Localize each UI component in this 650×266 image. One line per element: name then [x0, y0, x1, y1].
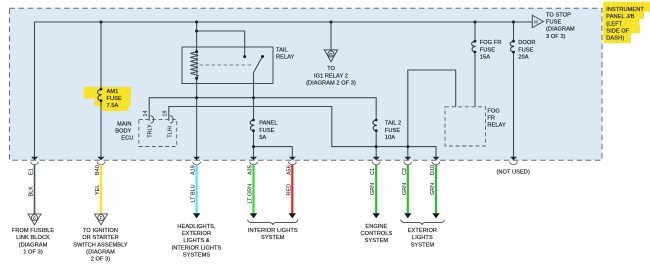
dot AM1 fuse top — [100, 88, 103, 91]
svg-text:(DIAGRAM: (DIAGRAM — [546, 27, 575, 33]
svg-text:TO IGNITION: TO IGNITION — [83, 228, 118, 234]
connector triangle F (to ignition/starter switch) — [94, 214, 107, 225]
svg-text:PANEL: PANEL — [259, 121, 277, 127]
svg-text:FUSE: FUSE — [385, 128, 400, 134]
arrowhead C2 — [404, 213, 411, 218]
wire: tail relay switch feed branch — [197, 31, 245, 57]
svg-text:(DIAGRAM: (DIAGRAM — [86, 249, 115, 255]
wire: IG1 relay branch — [330, 22, 332, 50]
svg-text:SWITCH ASSEMBLY: SWITCH ASSEMBLY — [73, 242, 128, 248]
junction dot bus/fog fuse — [474, 21, 477, 24]
svg-text:FUSE: FUSE — [518, 47, 533, 53]
svg-text:SYSTEM: SYSTEM — [261, 235, 285, 241]
svg-text:FROM FUSIBLE: FROM FUSIBLE — [12, 228, 55, 234]
wire: door fuse output to (NOT USED) — [513, 52, 515, 157]
wire: C2 / fog fr relay feed — [408, 70, 456, 157]
arrowhead A56 — [289, 213, 296, 218]
wire: main feed bus (top horizontal + left drop to E1) — [35, 22, 533, 157]
tail relay internal dashed link — [200, 64, 252, 66]
dot door fuse top — [512, 40, 515, 43]
svg-text:10A: 10A — [385, 135, 395, 141]
instrument panel J/B boundary (dashed box) — [10, 8, 603, 160]
junction dot bus/door fuse — [512, 21, 515, 24]
svg-text:TO: TO — [327, 66, 335, 72]
svg-text:D10: D10 — [430, 165, 436, 175]
wire: AM1 fuse branch lower to B40 — [100, 101, 102, 157]
wire: panel fuse output branch to A56 — [254, 147, 293, 158]
svg-text:3 OF 3): 3 OF 3) — [546, 34, 566, 40]
svg-text:A19: A19 — [191, 165, 197, 175]
dot panel fuse top — [252, 119, 255, 122]
junction dot TRLY bus / switch output — [252, 96, 255, 99]
svg-text:FR: FR — [487, 116, 495, 122]
svg-text:14: 14 — [143, 110, 149, 116]
svg-text:SYSTEM: SYSTEM — [411, 242, 435, 248]
fuse DOOR element — [510, 41, 514, 52]
svg-text:INTERIOR LIGHTS: INTERIOR LIGHTS — [172, 245, 222, 251]
svg-text:7.5A: 7.5A — [107, 103, 119, 109]
svg-text:(LEFT: (LEFT — [606, 21, 622, 27]
wire: fog fr fuse feed — [474, 22, 476, 41]
svg-text:TRLY: TRLY — [148, 124, 154, 138]
border crossing arrow A56 — [289, 157, 296, 161]
svg-text:AM1: AM1 — [107, 89, 119, 95]
wire BLK E1 — [34, 165, 36, 214]
svg-text:DASH): DASH) — [606, 36, 624, 42]
svg-text:TLHI: TLHI — [167, 126, 173, 138]
svg-text:GRN: GRN — [430, 183, 436, 195]
fuse AM1 element — [98, 89, 102, 101]
ECU pin 14 socket — [150, 116, 153, 123]
wire LT BLU A19 — [196, 165, 198, 214]
socket arc B40 — [97, 162, 105, 165]
svg-text:RELAY: RELAY — [487, 123, 506, 129]
svg-text:C2: C2 — [402, 168, 408, 175]
fuse PANEL element — [250, 120, 254, 131]
svg-text:FUSE: FUSE — [107, 96, 122, 102]
svg-text:INTERIOR LIGHTS: INTERIOR LIGHTS — [248, 228, 298, 234]
border crossing arrow A19 — [193, 157, 200, 161]
junction dot bus/IG1 branch — [330, 21, 333, 24]
highlight over AM1 fuse label — [85, 88, 130, 110]
svg-text:SYSTEMS: SYSTEMS — [183, 252, 211, 258]
main body ECU dashed box — [139, 119, 177, 146]
socket arc C2 — [404, 162, 412, 165]
svg-text:ENGINE: ENGINE — [365, 224, 387, 230]
fuse TAIL 2 element — [373, 120, 377, 131]
svg-text:2 OF 3): 2 OF 3) — [91, 257, 111, 263]
wire YEL B40 — [100, 165, 102, 214]
svg-text:FUSE: FUSE — [259, 128, 274, 134]
border crossing arrow B40 — [98, 157, 105, 161]
svg-text:EXTERIOR: EXTERIOR — [408, 228, 437, 234]
wire RED A56 — [291, 165, 293, 214]
wire: tail 2 fuse output down to C1 — [375, 131, 377, 157]
wire: ECU pin 19 (TLHI) bus to D10 — [169, 107, 436, 158]
dot fog fuse top — [474, 40, 477, 43]
svg-text:FUSE: FUSE — [480, 47, 495, 53]
wire GRN C2 — [407, 165, 409, 214]
dot fog fuse bottom — [474, 51, 477, 54]
svg-text:LIGHTS: LIGHTS — [412, 235, 433, 241]
svg-text:C1: C1 — [370, 168, 376, 175]
socket arc D10 — [432, 162, 440, 165]
wire: tail relay coil feed — [196, 22, 198, 52]
svg-text:YEL: YEL — [95, 185, 101, 195]
arrowhead A19 — [193, 213, 200, 218]
svg-text:IG1 RELAY 2: IG1 RELAY 2 — [314, 73, 348, 79]
svg-text:LT BLU: LT BLU — [191, 184, 197, 202]
wire GRN C1 — [375, 165, 377, 214]
wire: relay switch output down through panel fuse — [253, 73, 255, 121]
highlight over INSTRUMENT PANEL J/B label — [604, 2, 650, 42]
wire LT GRN A35 — [252, 165, 254, 214]
svg-text:OR STARTER: OR STARTER — [82, 235, 118, 241]
svg-text:TO STOP: TO STOP — [546, 12, 571, 18]
svg-text:A56: A56 — [286, 165, 292, 175]
svg-text:EXTERIOR: EXTERIOR — [182, 231, 211, 237]
socket arc A56 — [288, 162, 296, 165]
junction dot C2 / TLHI bus — [406, 145, 409, 148]
svg-text:F: F — [100, 216, 103, 221]
svg-text:GRN: GRN — [370, 183, 376, 195]
svg-text:LIGHTS &: LIGHTS & — [183, 238, 209, 244]
junction dot tail2 fuse / TLHI bus — [375, 145, 378, 148]
connector triangle G (to IG1 relay 2) — [324, 50, 337, 62]
dot tail2 fuse bottom — [375, 129, 378, 132]
junction dot TRLY bus / coil output — [195, 96, 198, 99]
junction dot bus/AM1 — [100, 21, 103, 24]
svg-text:15A: 15A — [480, 54, 490, 60]
wire GRN D10 — [435, 165, 437, 214]
svg-text:E1: E1 — [29, 168, 35, 175]
svg-text:SIDE OF: SIDE OF — [606, 28, 629, 34]
svg-text:SYSTEM: SYSTEM — [365, 238, 389, 244]
dot relay fixed contact — [243, 55, 246, 58]
svg-text:ECU: ECU — [121, 136, 133, 142]
dot relay blade pivot — [261, 55, 264, 58]
wire: AM1 fuse branch upper — [100, 22, 102, 89]
svg-text:PANEL J/B: PANEL J/B — [606, 14, 634, 20]
socket arc A35 — [250, 162, 258, 165]
svg-text:MAIN: MAIN — [117, 121, 131, 127]
dot coil bottom — [195, 77, 198, 80]
svg-text:G: G — [329, 52, 333, 57]
svg-text:LT GRN: LT GRN — [248, 184, 254, 204]
junction dot relay branch — [195, 30, 198, 33]
junction dot bus/relay feed — [195, 21, 198, 24]
wire: door fuse feed — [513, 22, 515, 41]
border crossing arrow A35 — [250, 157, 257, 161]
svg-text:LINK BLOCK: LINK BLOCK — [16, 235, 50, 241]
border crossing arrow C1 — [373, 157, 380, 161]
svg-text:TAIL 2: TAIL 2 — [385, 121, 401, 127]
svg-text:H: H — [534, 19, 537, 24]
svg-text:FOG FR: FOG FR — [480, 40, 502, 46]
svg-text:TAIL: TAIL — [276, 47, 288, 53]
fuse FOG FR element — [472, 41, 476, 52]
arrowhead C1 — [373, 213, 380, 218]
wire: fog fr fuse output to fog fr relay — [474, 52, 476, 107]
border crossing arrow E1 — [31, 157, 38, 161]
brace exterior lights group — [401, 220, 445, 225]
svg-text:20A: 20A — [518, 54, 528, 60]
tail relay switch blade — [254, 57, 263, 73]
dot panel fuse bottom — [252, 129, 255, 132]
border crossing arrow D10 — [433, 157, 440, 161]
connector triangle H (to stop fuse) — [532, 15, 543, 27]
svg-text:1 OF 3): 1 OF 3) — [23, 249, 43, 255]
border crossing arrow (not used) — [510, 157, 517, 161]
svg-text:RELAY: RELAY — [276, 55, 295, 61]
svg-text:GRN: GRN — [402, 183, 408, 195]
svg-text:INSTRUMENT: INSTRUMENT — [606, 7, 644, 13]
svg-text:B40: B40 — [95, 165, 101, 175]
svg-text:(NOT USED): (NOT USED) — [496, 169, 529, 175]
tail relay coil — [190, 52, 198, 78]
svg-text:RED: RED — [286, 184, 292, 196]
wire: panel fuse output down to A35 — [253, 131, 255, 157]
svg-text:5A: 5A — [259, 135, 266, 141]
svg-text:CONTROLS: CONTROLS — [360, 231, 392, 237]
border crossing arrow C2 — [404, 157, 411, 161]
tail relay box — [182, 47, 273, 84]
svg-text:BLK: BLK — [29, 186, 35, 197]
wire: ECU pin 14 (TRLY) bus to tail 2 fuse — [149, 98, 376, 121]
svg-text:A35: A35 — [248, 165, 254, 175]
svg-text:BODY: BODY — [115, 128, 131, 134]
fog fr relay dashed box — [445, 107, 486, 146]
wire: coil output down to A19 — [196, 78, 198, 157]
svg-text:(DIAGRAM: (DIAGRAM — [19, 242, 48, 248]
svg-text:HEADLIGHTS,: HEADLIGHTS, — [177, 224, 216, 230]
svg-text:(DIAGRAM 2 OF 3): (DIAGRAM 2 OF 3) — [306, 80, 356, 86]
ECU pin 19 socket — [170, 116, 173, 123]
socket arc C1 — [372, 162, 380, 165]
dot tail2 fuse top — [375, 119, 378, 122]
arrowhead D10 — [432, 213, 439, 218]
svg-text:19: 19 — [163, 110, 169, 116]
socket arc A19 — [193, 162, 201, 165]
dot door fuse bottom — [512, 51, 515, 54]
svg-text:DOOR: DOOR — [518, 40, 535, 46]
junction dot panel fuse branch — [252, 145, 255, 148]
tail relay coil second strand — [196, 53, 198, 78]
svg-text:FUSE: FUSE — [546, 20, 561, 26]
connector triangle C (from fusible link block) — [28, 214, 41, 225]
dot AM1 fuse bottom — [100, 99, 103, 102]
socket arc (not used) — [510, 162, 518, 165]
svg-text:FOG: FOG — [487, 108, 499, 114]
socket arc E1 — [31, 162, 39, 165]
dot coil top — [195, 50, 198, 53]
brace interior lights group — [248, 220, 298, 225]
arrowhead A35 — [250, 213, 257, 218]
